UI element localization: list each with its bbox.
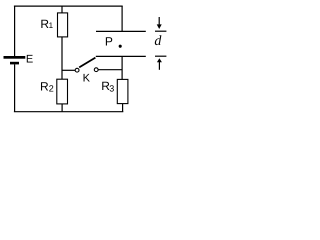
svg-text:P: P [105,35,113,49]
svg-text:3: 3 [109,84,114,94]
svg-text:1: 1 [49,21,54,30]
svg-text:E: E [26,53,33,65]
svg-text:2: 2 [49,83,54,93]
svg-text:R: R [40,79,49,93]
svg-text:d: d [154,34,162,49]
svg-text:K: K [83,73,91,85]
